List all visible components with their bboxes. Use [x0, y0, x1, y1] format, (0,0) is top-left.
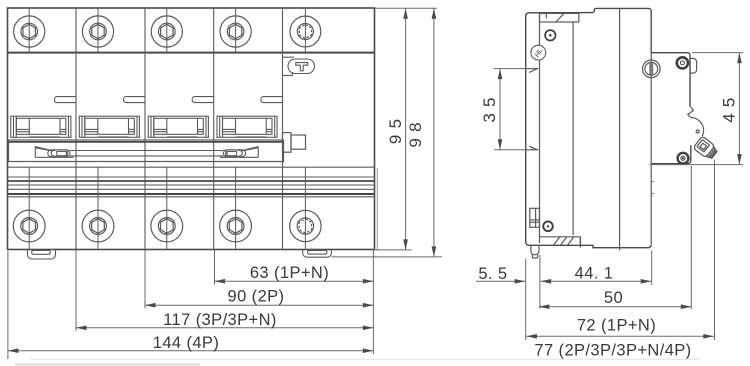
svg-text:45: 45: [720, 91, 739, 122]
ext 50 right: [690, 166, 692, 309]
ext 35 top: [494, 68, 526, 70]
bottom step and hatch: [540, 236, 581, 238]
pole center line 3 top: [166, 8, 168, 53]
module divider 3: [213, 8, 215, 250]
faint scan artifact line at bottom: [30, 358, 700, 360]
busbar connector on pole 5: [283, 133, 292, 153]
boss hole: [696, 130, 699, 133]
dim line 45: [738, 53, 740, 165]
line under top terminal band: [8, 52, 375, 54]
left funnel: [34, 147, 36, 158]
svg-text:5. 5: 5. 5: [478, 265, 507, 283]
ext 35 bottom: [494, 149, 526, 151]
pole center line 2 bottom: [97, 167, 99, 249]
svg-text:144 (4P): 144 (4P): [153, 334, 220, 352]
top terminal screw 4: [220, 16, 251, 47]
handle rail thick top line: [9, 141, 284, 143]
module divider 2: [144, 8, 146, 250]
pole center line 1 bottom: [28, 167, 30, 249]
pole center line 3 bottom: [166, 167, 168, 249]
svg-text:117 (3P/3P+N): 117 (3P/3P+N): [163, 311, 277, 329]
extension line divider3: [214, 250, 216, 285]
pole center line 4 bottom: [235, 167, 237, 249]
ext 72 right: [714, 160, 716, 341]
face plate top and right: [651, 53, 690, 107]
face top screw: [677, 57, 688, 68]
front body right edge (651.2): [650, 10, 652, 53]
top clip notch rect: [540, 13, 579, 22]
toggle handle knob: [693, 136, 719, 161]
dim line 63: [215, 280, 374, 282]
svg-text:63 (1P+N): 63 (1P+N): [250, 264, 329, 282]
faint right edge second line: [376, 168, 378, 250]
bottom of front body: [580, 245, 651, 248]
svg-text:90 (2P): 90 (2P): [228, 288, 285, 306]
pole center line 5 top: [304, 8, 306, 53]
ext 44.1 right: [651, 251, 653, 285]
bottom terminal screw 3: [151, 210, 183, 242]
toggle pivot boss arc: [691, 118, 704, 137]
module divider 1: [75, 8, 77, 250]
ext foot right: [539, 255, 541, 309]
right funnel: [257, 147, 259, 158]
dim line 35: [499, 69, 501, 150]
ext 45 bottom: [650, 164, 743, 166]
HL logo circle: [531, 45, 546, 60]
pole center line 5 bottom: [304, 167, 306, 249]
bottom terminal screw 4: [220, 210, 252, 242]
terminal block top edge: [8, 196, 375, 198]
back edge with DIN groove: [525, 69, 527, 150]
top terminal screw 3: [151, 16, 182, 47]
svg-text:44. 1: 44. 1: [575, 265, 614, 283]
dim line 5.5 (arrow outside): [476, 280, 525, 282]
bottom terminal screw 2: [82, 210, 114, 242]
clip notch on divider 3: [192, 97, 214, 103]
svg-text:35: 35: [480, 91, 499, 122]
extension line divider1: [75, 250, 77, 331]
top extension to 95/98: [375, 7, 438, 9]
DIN clip slider: [530, 208, 540, 227]
top terminal screw 5 (N pole, dashed hex): [290, 16, 321, 47]
svg-text:98: 98: [406, 116, 425, 147]
front view body outline: [8, 8, 375, 250]
face bottom and lower edge: [651, 145, 691, 163]
pole center line 4 top: [235, 8, 237, 53]
dim line 95: [405, 8, 407, 250]
window pole 1: [11, 116, 71, 137]
extension line right edge: [372, 250, 374, 354]
bottom extension 95: [375, 249, 412, 251]
clip screw: [543, 222, 553, 232]
bottom extension 98: [331, 256, 442, 258]
top terminal screw 2: [82, 16, 113, 47]
dim line 98: [433, 8, 435, 257]
clip notch on divider 2: [124, 97, 146, 103]
svg-text:72 (1P+N): 72 (1P+N): [577, 316, 656, 334]
extension line divider2: [144, 250, 146, 309]
dim line 72: [526, 335, 713, 337]
ext back edge: [525, 259, 527, 341]
top back screw: [545, 30, 555, 40]
right toggle capsule: [223, 150, 245, 157]
clip notch on divider 4: [261, 97, 283, 103]
top terminal screw 1: [14, 16, 45, 47]
handle bar top line: [70, 150, 223, 152]
handle bar bottom line: [70, 155, 223, 157]
dim line 90: [145, 304, 373, 306]
pole center line 1 top: [28, 8, 30, 53]
DIN hook bottom: [526, 149, 539, 151]
module divider 4: [282, 8, 284, 250]
ext 45 top: [692, 52, 743, 54]
mid vertical line: [572, 22, 574, 235]
parting vertical line: [619, 8, 621, 250]
extension line left edge: [7, 251, 9, 359]
dim line 44.1: [541, 280, 652, 282]
DIN hook top: [526, 68, 539, 70]
bottom terminal screw 1: [13, 210, 45, 242]
face bottom screw: [678, 153, 689, 164]
dim line 144: [8, 350, 374, 352]
dim line 50: [539, 306, 692, 308]
slotted adjuster screw: [643, 60, 661, 78]
edge zigzag notch: [688, 107, 694, 118]
stripe band lines: [8, 166, 375, 168]
dim line 117: [76, 327, 373, 329]
window pole 2: [79, 116, 139, 137]
rail-side inner vertical: [539, 13, 541, 243]
back section bottom: [526, 237, 581, 246]
window pole 3: [148, 116, 208, 137]
handle rail box: [9, 140, 284, 162]
left mounting tab: [28, 250, 56, 260]
bottom terminal screw 5 (N pole, dashed hex): [290, 210, 321, 241]
test button step lines: [283, 56, 295, 58]
left toggle capsule: [48, 150, 70, 157]
side outline top: [526, 8, 652, 68]
small ticks on 651 line: [651, 181, 653, 183]
pole center line 2 top: [97, 8, 99, 53]
window pole 4: [217, 116, 277, 137]
svg-text:95: 95: [386, 113, 405, 144]
test button T stadium: [288, 59, 315, 74]
svg-text:77 (2P/3P/3P+N/4P): 77 (2P/3P/3P+N/4P): [534, 342, 691, 360]
clip foot: [531, 245, 539, 254]
letter T outline: [296, 63, 308, 71]
clip notch on divider 1: [55, 97, 77, 103]
right mounting tab: [303, 250, 332, 258]
svg-text:50: 50: [604, 289, 623, 307]
face bump: [691, 58, 697, 73]
